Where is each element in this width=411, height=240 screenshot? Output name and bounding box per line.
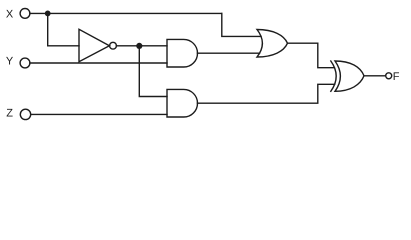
wire X branch down to inverter input [48,13,79,45]
XOR gate U5 leading arc [331,61,336,91]
wire Z to AND2 input 2 [31,113,167,115]
XOR gate U5 body [335,61,364,91]
svg-text:F: F [393,71,400,83]
OR gate U4 [257,30,288,58]
inverter U1 bubble [110,42,117,49]
svg-text:Z: Z [6,108,13,120]
wire XOR output to F terminal [364,75,386,77]
input Z terminal [20,109,30,119]
wire X down to OR gate input 1 [222,13,261,36]
wire OR output down to XOR input 1 [288,43,335,67]
input X terminal [20,9,30,19]
output F terminal [386,73,392,79]
wire Y to AND1 input 2 [30,62,167,64]
svg-text:X: X [6,8,14,20]
wire AND1 output to OR input 2 [197,52,259,54]
junction dot on X wire [45,11,51,17]
junction dot on inverter output [136,43,142,49]
wire X horizontal to top-right corner [30,12,222,14]
wire inverter output to AND1 input 1 [116,45,167,47]
AND gate U2 (top) [167,39,198,67]
wire inverter-output branch down to AND2 input 1 [139,46,167,97]
AND gate U3 (bottom) [167,89,198,117]
inverter U1 triangle [79,29,109,61]
svg-text:Y: Y [6,56,14,68]
wire AND2 output to jog near XOR [197,84,334,103]
input Y terminal [20,58,30,68]
